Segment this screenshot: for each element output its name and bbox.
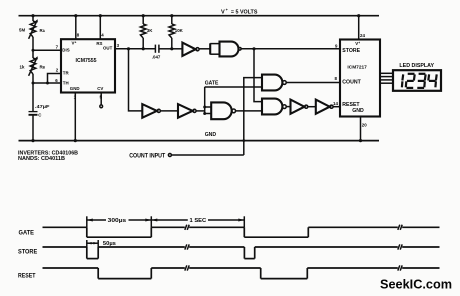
capacitor C .47uF (29, 112, 38, 115)
wire left branch vertical (V+ to RA) (32, 16, 34, 21)
wire COUNT INPUT riser to NAND N3 upper input (244, 78, 262, 155)
pin 8 V+ wire of U1 (74, 14, 80, 39)
op IC U1 ICM7555 timer (61, 39, 115, 92)
svg-text:NANDS: CD4011B: NANDS: CD4011B (18, 156, 65, 162)
label 50us (103, 241, 116, 247)
svg-text:RB: RB (40, 65, 46, 70)
svg-text:COUNT INPUT: COUNT INPUT (129, 153, 165, 159)
label 300us (108, 218, 127, 224)
inverter A1 (schmitt) (182, 43, 199, 56)
svg-text:1k: 1k (20, 64, 25, 69)
ground rail (19, 140, 380, 142)
pin 3 OUT wire (115, 43, 155, 49)
svg-text:20: 20 (362, 122, 367, 127)
pin 5 CV wire with open terminal (100, 93, 103, 108)
pin 7 DIS wire (33, 45, 61, 51)
wire COUNT INPUT to riser (171, 154, 243, 156)
pin 8 label (335, 76, 338, 81)
watermark SeekIC.com (380, 276, 452, 291)
svg-text:OUT: OUT (103, 46, 113, 51)
svg-text:TR: TR (63, 71, 70, 76)
pin 20 GND wire of U2 (359, 117, 367, 143)
timing trace STORE waveform (43, 244, 440, 258)
svg-text:5M: 5M (19, 28, 25, 33)
svg-text:COUNT: COUNT (342, 80, 361, 86)
label .047 (152, 54, 161, 59)
svg-text:RA: RA (40, 28, 46, 33)
resistor RB 1k (variable) (29, 56, 38, 76)
terminal COUNT INPUT open circle (168, 154, 171, 157)
dimension ticks 300us / 1 SEC (87, 216, 245, 227)
wire C to ground rail (32, 115, 34, 141)
wire GATE line to NAND N3 lower input (205, 86, 262, 88)
pin 2 TR wire with bracket (48, 68, 62, 83)
svg-text:GATE: GATE (205, 81, 219, 87)
wire display bus 4 lines (380, 73, 393, 83)
svg-text:CV: CV (97, 86, 103, 91)
svg-text:V: V (221, 10, 225, 16)
node DIS junction (32, 49, 35, 52)
label RB (40, 65, 46, 70)
junction dot left chain at V+ rail (31, 14, 34, 17)
label 1 SEC (190, 218, 207, 224)
capacitor .047 coupling (155, 45, 171, 53)
svg-text:14: 14 (333, 101, 338, 106)
wire 10K node to inverter A1 (172, 48, 183, 50)
wire RA to RB (32, 37, 34, 58)
inverter A4 (291, 100, 308, 114)
junction dot riser at ground rail (242, 139, 245, 142)
svg-text:300µs: 300µs (108, 218, 127, 224)
svg-text:SeekIC.com: SeekIC.com (380, 276, 452, 291)
label COUNT INPUT (129, 153, 165, 159)
wire A5 to U2 RESET pin 14 (333, 101, 340, 107)
wire N3 out to U2 COUNT pin 8 (286, 82, 340, 84)
label V+ = 5 VOLTS (221, 8, 258, 16)
net V+ top supply rail (19, 15, 380, 17)
NAND N1 (inputs tied) store one-shot (210, 42, 241, 57)
NAND N5 reset gate (262, 99, 286, 115)
inverter A2 (142, 104, 160, 118)
label 5M (19, 28, 25, 33)
note INVERTERS: CD40106B (18, 151, 78, 157)
wire STORE line to U2 pin 9 (241, 48, 340, 50)
dimension line 300us (87, 219, 152, 222)
label LED DISPLAY (399, 63, 434, 69)
dimension 50us on STORE (87, 240, 98, 247)
resistor 10K pullup (169, 14, 175, 50)
junction dots N2 tied inputs (203, 106, 206, 116)
NAND N3 count gate (262, 75, 286, 91)
svg-text:LED DISPLAY: LED DISPLAY (399, 63, 434, 69)
svg-text:RS: RS (96, 41, 102, 46)
svg-text:3K: 3K (147, 28, 153, 33)
node STORE branch junction (252, 47, 255, 50)
label 3K (147, 28, 153, 33)
inverter A5 (316, 100, 333, 114)
svg-text:ICM7217: ICM7217 (347, 64, 367, 70)
svg-text:GND: GND (352, 108, 364, 114)
label 1k (20, 64, 25, 69)
note NANDS: CD4011B (18, 156, 65, 162)
svg-text:.047: .047 (152, 54, 161, 59)
wire branch down from OUT to lower inverter row (129, 49, 143, 111)
wire STORE down to NAND N5 input (254, 49, 262, 102)
svg-text:DIS: DIS (62, 47, 69, 52)
op IC U2 ICM7217 counter (340, 40, 380, 117)
timing label STORE (18, 248, 38, 255)
label GATE (205, 81, 219, 87)
svg-text:1 SEC: 1 SEC (190, 218, 207, 224)
wire A1 to NAND N1 (199, 48, 210, 50)
pin 6 TH wire (33, 78, 61, 85)
timing trace GATE waveform (43, 225, 440, 238)
wire N2 out to N5 input (236, 110, 262, 112)
dimension line 1 SEC (151, 219, 244, 222)
timing trace RESET waveform (43, 265, 440, 278)
svg-text:.47µF: .47µF (35, 104, 50, 109)
svg-text:50µs: 50µs (103, 241, 116, 247)
svg-text:STORE: STORE (18, 248, 38, 255)
svg-text:10K: 10K (175, 28, 184, 33)
wire RB to C (32, 74, 34, 111)
NAND N2 (inputs tied, gate buffer) (205, 102, 236, 119)
wire N5 out to inverter A4 (286, 106, 290, 108)
node TH junction (32, 82, 35, 85)
svg-text:STORE: STORE (342, 48, 360, 54)
svg-text:GND: GND (205, 132, 217, 138)
LED display module with 1234 (393, 70, 441, 91)
wire A3 to N2 tie bar (node GATE) (196, 110, 205, 112)
resistor RA 5M (variable) (29, 19, 38, 39)
inverter A3 (178, 104, 196, 118)
pin 9 label (335, 44, 338, 49)
svg-text:GND: GND (70, 86, 80, 91)
wire GATE net: corner down to N2 inputs (204, 87, 206, 114)
timing label RESET (18, 273, 36, 280)
svg-text:GATE: GATE (19, 229, 35, 236)
label .47uF (35, 104, 50, 109)
svg-text:TH: TH (63, 81, 69, 86)
timing label GATE (19, 229, 35, 236)
wire A4 to A5 (308, 106, 316, 108)
label 10K (175, 28, 184, 33)
svg-text:= 5 VOLTS: = 5 VOLTS (231, 10, 258, 16)
label RA (40, 28, 46, 33)
label GND (205, 132, 217, 138)
junction dot left chain at ground rail (31, 139, 34, 142)
svg-text:24: 24 (360, 33, 365, 38)
resistor 3K pullup (140, 14, 146, 50)
wire A2 to A3 (160, 110, 178, 112)
pin 4 RS wire of U1 (99, 14, 105, 39)
label C (38, 113, 42, 118)
svg-text:ICM7555: ICM7555 (76, 58, 97, 64)
svg-text:RESET: RESET (18, 273, 36, 280)
pin 24 V+ wire of U2 (357, 14, 365, 39)
pin 1 GND wire of U1 (74, 93, 77, 143)
node OUT branch junction (127, 47, 130, 50)
